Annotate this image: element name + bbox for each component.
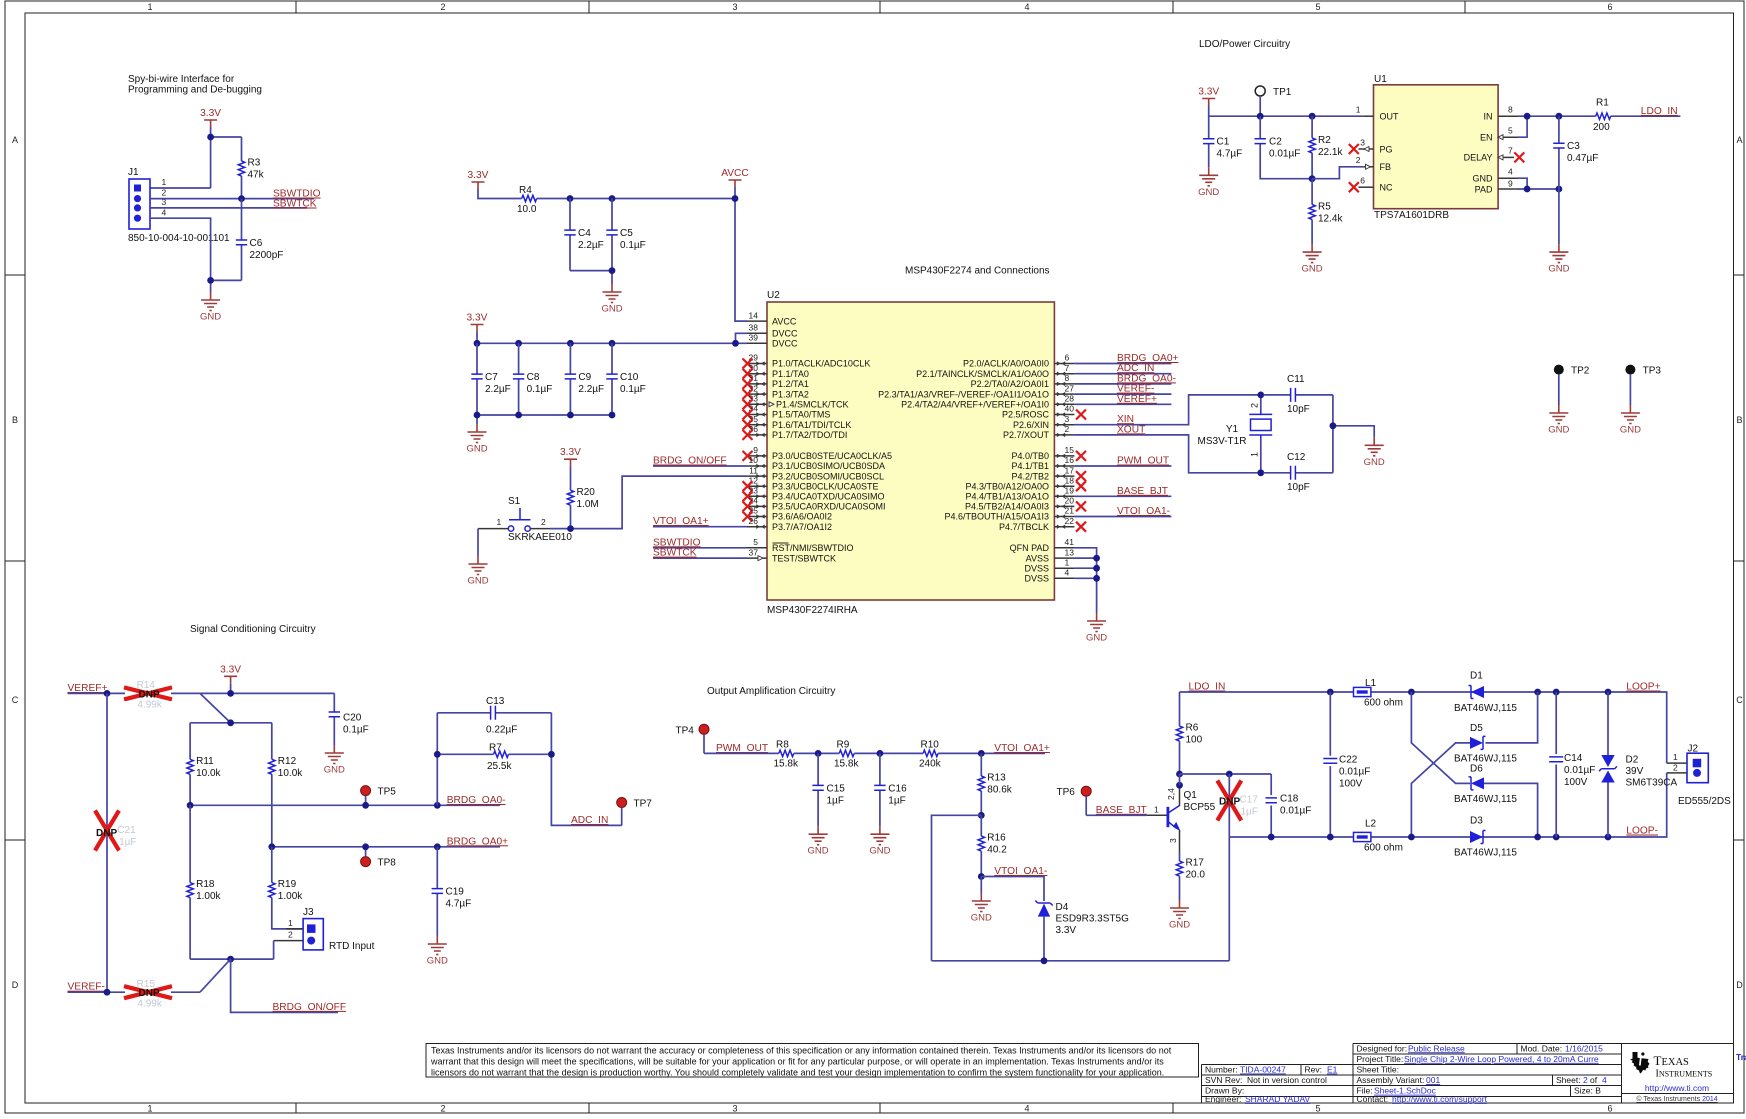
svg-text:P3.6/A6/OA0I2: P3.6/A6/OA0I2 — [772, 512, 832, 522]
svg-text:R16: R16 — [987, 833, 1006, 844]
capacitor C5 — [606, 199, 645, 271]
svg-text:SBWTCK: SBWTCK — [653, 548, 697, 559]
svg-text:4: 4 — [1508, 167, 1513, 177]
U2 pin 3 P2.6/XIN — [1013, 414, 1074, 430]
svg-text:of: of — [1590, 1075, 1598, 1085]
ground (C4/C5) — [601, 284, 622, 315]
test point TP6 — [1057, 786, 1092, 815]
wire net XIN — [1074, 395, 1258, 425]
svg-text:6: 6 — [1607, 2, 1612, 12]
wire net BRDG_OA0- (pin8) — [1074, 383, 1171, 385]
svg-text:27: 27 — [1065, 383, 1075, 393]
junction R13 top — [978, 750, 985, 757]
ground (R5) — [1302, 244, 1323, 275]
svg-text:DELAY: DELAY — [1464, 153, 1493, 163]
svg-text:P4.5/TB2/A14/OA0I3: P4.5/TB2/A14/OA0I3 — [965, 502, 1049, 512]
junction R7 left — [434, 751, 441, 758]
ground (R16) — [971, 893, 992, 924]
U2 pin 27 P2.3/TA1/A3/VREF-/VEREF-/OA1I1/OA1O — [878, 383, 1074, 399]
svg-text:P2.5/ROSC: P2.5/ROSC — [1002, 410, 1050, 420]
power 3.3V (DVCC rail) — [467, 313, 488, 332]
svg-text:1: 1 — [1356, 105, 1361, 115]
svg-text:P3.7/A7/OA1I2: P3.7/A7/OA1I2 — [772, 522, 832, 532]
U2 pin 16 P4.1/TB1 — [1011, 455, 1074, 471]
svg-text:13: 13 — [1065, 547, 1075, 557]
svg-text:P3.5/UCA0RXD/UCA0SOMI: P3.5/UCA0RXD/UCA0SOMI — [772, 502, 886, 512]
svg-text:1: 1 — [162, 177, 167, 187]
capacitor C2 — [1255, 116, 1313, 179]
wire J1 pin4 to GND node — [150, 218, 242, 292]
resistor R18 — [187, 805, 222, 959]
svg-text:Contact:: Contact: — [1357, 1094, 1389, 1104]
svg-text:VEREF+: VEREF+ — [1117, 394, 1157, 405]
wire collector rail to C18 — [1180, 774, 1272, 785]
junction R16 bottom / VTOI_OA1- — [978, 873, 985, 880]
svg-text:IN: IN — [1484, 112, 1493, 122]
test point TP8 — [361, 847, 397, 869]
svg-text:P4.2/TB2: P4.2/TB2 — [1011, 471, 1049, 481]
junction C22 top — [1327, 689, 1334, 696]
svg-text:C10: C10 — [620, 372, 639, 383]
svg-text:L2: L2 — [1365, 819, 1377, 830]
svg-text:10pF: 10pF — [1287, 404, 1310, 415]
svg-text:0.01µF: 0.01µF — [1564, 765, 1595, 776]
wire C11/C12 to GND — [1333, 395, 1374, 473]
wire R9 to R10 — [854, 752, 923, 754]
svg-text:3.3V: 3.3V — [467, 313, 488, 324]
svg-text:PWM_OUT: PWM_OUT — [1117, 456, 1169, 467]
svg-text:R9: R9 — [837, 740, 850, 751]
svg-text:C14: C14 — [1564, 753, 1583, 764]
zone ticks bottom — [296, 1103, 1173, 1113]
junction R2 top node — [1309, 113, 1316, 120]
resistor R9 — [834, 740, 859, 770]
U2 pin 26 P3.7/A7/OA1I2 — [747, 516, 832, 532]
svg-text:1: 1 — [1065, 557, 1070, 567]
U2 pin 12 P3.3/UCB0CLK/UCA0STE — [743, 475, 879, 491]
svg-text:D: D — [1736, 980, 1743, 990]
U2 pin 15 P4.0/TB0 — [1011, 445, 1086, 461]
svg-text:P3.4/UCA0TXD/UCA0SIMO: P3.4/UCA0TXD/UCA0SIMO — [772, 492, 885, 502]
svg-text:21: 21 — [1065, 506, 1075, 516]
svg-text:1: 1 — [1154, 804, 1159, 814]
wire R16 bottom to GND — [980, 877, 982, 894]
junction C3 bottom — [1556, 186, 1563, 193]
svg-text:2: 2 — [440, 1104, 445, 1114]
svg-text:EN: EN — [1480, 133, 1493, 143]
junction C16 top — [877, 750, 884, 757]
svg-text:25.5k: 25.5k — [487, 761, 512, 772]
svg-text:1: 1 — [147, 1104, 152, 1114]
svg-text:LOOP-: LOOP- — [1626, 826, 1658, 837]
svg-text:P2.0/ACLK/A0/OA0I0: P2.0/ACLK/A0/OA0I0 — [963, 359, 1049, 369]
wire 3.3V rail to U1 OUT — [1209, 106, 1364, 117]
svg-text:P4.7/TBCLK: P4.7/TBCLK — [999, 522, 1049, 532]
svg-text:12.4k: 12.4k — [1318, 214, 1343, 225]
capacitor C4 — [564, 199, 603, 271]
svg-text:TP7: TP7 — [634, 799, 653, 810]
svg-text:BRDG_ON/OFF: BRDG_ON/OFF — [653, 456, 727, 467]
svg-text:Designed for:: Designed for: — [1357, 1043, 1408, 1053]
svg-text:LDO_IN: LDO_IN — [1641, 106, 1678, 117]
title block row Drawn By/File/Size — [1205, 1086, 1601, 1096]
svg-text:6: 6 — [1607, 1104, 1612, 1114]
capacitor C6 — [236, 199, 284, 281]
svg-text:SHARAD YADAV: SHARAD YADAV — [1245, 1094, 1311, 1104]
svg-text:P1.2/TA1: P1.2/TA1 — [772, 379, 809, 389]
svg-text:3.3V: 3.3V — [468, 170, 489, 181]
svg-text:15.8k: 15.8k — [834, 759, 859, 770]
svg-text:P2.6/XIN: P2.6/XIN — [1013, 420, 1049, 430]
svg-text:3.3V: 3.3V — [220, 664, 241, 675]
connector J2 ED555/2DS — [1667, 744, 1731, 808]
svg-text:Q1: Q1 — [1184, 790, 1198, 801]
resistor R7 — [437, 742, 551, 772]
svg-text:600 ohm: 600 ohm — [1364, 843, 1403, 854]
svg-text:Spy-bi-wire Interface for: Spy-bi-wire Interface for — [128, 74, 235, 85]
svg-text:4.7µF: 4.7µF — [446, 899, 472, 910]
U2 pin 7 P2.1/TAINCLK/SMCLK/A1/OA0O — [916, 363, 1074, 379]
svg-text:0.1µF: 0.1µF — [620, 240, 646, 251]
resistor R11 — [187, 723, 222, 806]
wire PAD to GND — [1558, 189, 1560, 244]
svg-text:2,4: 2,4 — [1166, 788, 1176, 800]
svg-text:DVCC: DVCC — [772, 339, 798, 349]
U1 pin 9 PAD — [1475, 178, 1518, 194]
junction GND node — [207, 277, 214, 284]
wire J3 pin2 to bottom rail — [273, 941, 275, 960]
zone numbers top — [147, 2, 1612, 12]
resistor R20 — [567, 466, 598, 528]
svg-text:R3: R3 — [248, 158, 261, 169]
capacitor C20 — [329, 693, 369, 745]
zone ticks left — [5, 275, 25, 840]
svg-text:C17: C17 — [1240, 795, 1259, 806]
capacitor C3 — [1553, 116, 1598, 189]
wire crossover diagonals — [1411, 692, 1470, 837]
title block row Engineer/Contact — [1205, 1094, 1488, 1104]
svg-text:J3: J3 — [303, 907, 314, 918]
ground (C15) — [808, 826, 829, 857]
svg-text:ED555/2DS: ED555/2DS — [1678, 796, 1731, 807]
inductor L1 600 ohm — [1354, 678, 1403, 709]
ground (C20) — [324, 745, 345, 776]
svg-text:XOUT: XOUT — [1117, 424, 1145, 435]
title block grid — [1202, 1043, 1734, 1103]
wire S1/R20 to U2 pin11 — [550, 476, 747, 528]
wire net VEREF+ (pin28) — [1074, 403, 1171, 405]
svg-text:PWM_OUT: PWM_OUT — [716, 743, 768, 754]
svg-text:TPS7A1601DRB: TPS7A1601DRB — [1374, 210, 1449, 221]
svg-text:R1: R1 — [1596, 98, 1609, 109]
junction TP8 — [362, 843, 369, 850]
crystal Y1 MS3V-T1R — [1198, 395, 1273, 473]
svg-text:1.00k: 1.00k — [196, 891, 221, 902]
U2 pin 23 P3.4/UCA0TXD/UCA0SIMO — [743, 486, 885, 502]
resistor R14 DNP 4.99k — [124, 680, 172, 711]
title block row Project Title — [1357, 1054, 1599, 1064]
U2 pin 28 P2.4/TA2/A4/VREF+/VEREF+/OA1I0 — [901, 394, 1074, 410]
wire bridge bottom rail — [190, 958, 274, 960]
svg-text:C7: C7 — [485, 372, 498, 383]
svg-text:P2.3/TA1/A3/VREF-/VEREF-/OA1I1: P2.3/TA1/A3/VREF-/VEREF-/OA1I1/OA1O — [878, 389, 1049, 399]
connector J3 RTD Input — [274, 907, 375, 952]
svg-text:C6: C6 — [250, 238, 263, 249]
svg-text:R4: R4 — [519, 185, 532, 196]
wire net BRDG_OA0- — [190, 804, 500, 806]
U2 pin 8 P2.2/TA0/A2/OA0I1 — [971, 373, 1075, 389]
ground (crystal) — [1364, 437, 1385, 468]
svg-text:BAT46WJ,115: BAT46WJ,115 — [1454, 754, 1517, 765]
junction diagonal top — [1408, 689, 1415, 696]
junction D2 top — [1605, 689, 1612, 696]
svg-text:BASE_BJT: BASE_BJT — [1117, 486, 1168, 497]
svg-text:P4.4/TB1/A13/OA1O: P4.4/TB1/A13/OA1O — [965, 492, 1049, 502]
zone ticks right — [1733, 275, 1744, 840]
test point TP1 — [1255, 86, 1292, 116]
wire net VTOI_OA1+ (pin26) — [653, 526, 747, 528]
junction C17 top — [1226, 771, 1233, 778]
svg-text:TP1: TP1 — [1273, 87, 1292, 98]
svg-text:MSP430F2274IRHA: MSP430F2274IRHA — [767, 605, 858, 616]
U2 pin 37 TEST/SBWTCK — [747, 547, 836, 563]
diode D2 SM6T39CA TVS — [1599, 692, 1677, 837]
svg-text:11: 11 — [749, 465, 758, 475]
ground (U2) — [1086, 613, 1107, 644]
svg-text:FB: FB — [1380, 162, 1392, 172]
svg-text:VTOI_OA1+: VTOI_OA1+ — [994, 743, 1050, 754]
svg-text:R2: R2 — [1318, 135, 1331, 146]
svg-text:100: 100 — [1186, 735, 1203, 746]
svg-text:Public Release: Public Release — [1408, 1043, 1465, 1053]
IC U2 MSP430F2274 body — [767, 290, 1054, 616]
U1 pin 7 DELAY — [1464, 146, 1525, 163]
resistor R6 — [1176, 692, 1202, 774]
junction D6 bottom — [1534, 834, 1541, 841]
junction Q1 collector pins — [1176, 782, 1183, 789]
ground (R17) — [1169, 900, 1190, 931]
svg-text:38: 38 — [749, 323, 759, 333]
ground (decoupling rail) — [466, 424, 487, 455]
resistor R13 — [978, 753, 1013, 815]
wire D5 cathode to LDO_IN rail — [1486, 692, 1538, 743]
junction S1/R20 node — [567, 525, 574, 532]
svg-text:5: 5 — [1315, 2, 1320, 12]
svg-text:1: 1 — [288, 918, 293, 928]
svg-text:BASE_BJT: BASE_BJT — [1096, 805, 1147, 816]
wire net PWM_OUT (pin16) — [1074, 465, 1171, 467]
svg-text:8: 8 — [1508, 105, 1513, 115]
svg-text:18: 18 — [1065, 475, 1075, 485]
svg-text:Y1: Y1 — [1226, 424, 1239, 435]
U2 pin 13 AVSS — [1026, 547, 1075, 563]
svg-text:C: C — [12, 695, 19, 705]
svg-text:2: 2 — [1065, 424, 1070, 434]
power 3.3V (R20 pullup) — [560, 447, 581, 466]
svg-text:RTD Input: RTD Input — [329, 941, 375, 952]
svg-text:5: 5 — [1315, 1104, 1320, 1114]
capacitor C1 — [1203, 116, 1242, 167]
svg-text:SKRKAEE010: SKRKAEE010 — [508, 532, 572, 543]
svg-text:4: 4 — [1065, 568, 1070, 578]
U2 pin 10 P3.1/UCB0SIMO/UCB0SDA — [747, 455, 885, 471]
wire net LOOP- rail — [1229, 773, 1666, 837]
svg-text:P1.7/TA2/TDO/TDI: P1.7/TA2/TDO/TDI — [772, 430, 847, 440]
svg-text:40.2: 40.2 — [987, 845, 1007, 856]
svg-text:3.3V: 3.3V — [560, 447, 581, 458]
svg-text:D6: D6 — [1470, 764, 1483, 775]
svg-text:2: 2 — [1673, 762, 1678, 772]
svg-text:C: C — [1736, 695, 1743, 705]
U1 pin 2 FB — [1356, 155, 1391, 172]
U2 pin 35 P1.6/TA1/TDI/TCLK — [743, 414, 852, 430]
wire D6 anode to LOOP- rail — [1484, 783, 1538, 837]
svg-text:R18: R18 — [196, 879, 215, 890]
svg-text:2: 2 — [541, 517, 546, 527]
wire net ADC_IN (pin7) — [1074, 373, 1171, 375]
svg-text:DVSS: DVSS — [1024, 574, 1049, 584]
svg-text:17: 17 — [1065, 465, 1075, 475]
svg-text:3: 3 — [1360, 137, 1365, 147]
svg-text:PG: PG — [1380, 144, 1393, 154]
svg-text:0.01µF: 0.01µF — [1280, 805, 1311, 816]
svg-text:U1: U1 — [1374, 74, 1387, 85]
svg-text:1µF: 1µF — [1241, 807, 1258, 818]
svg-text:Number:: Number: — [1205, 1065, 1238, 1075]
svg-text:10.0k: 10.0k — [196, 768, 221, 779]
U2 pin 1 DVSS — [1024, 557, 1074, 573]
svg-text:2.2µF: 2.2µF — [485, 384, 511, 395]
wire net BRDG_OA0+ — [272, 846, 500, 848]
svg-text:3: 3 — [732, 1104, 737, 1114]
test point TP7 — [617, 798, 653, 826]
svg-text:Assembly Variant:: Assembly Variant: — [1357, 1075, 1425, 1085]
svg-text:VEREF+: VEREF+ — [68, 683, 108, 694]
svg-text:4: 4 — [1602, 1075, 1607, 1085]
svg-text:B: B — [12, 415, 18, 425]
junction R2/R5/C2/FB node — [1309, 175, 1316, 182]
svg-text:D: D — [12, 980, 19, 990]
svg-text:INSTRUMENTS: INSTRUMENTS — [1656, 1069, 1713, 1080]
svg-text:P3.0/UCB0STE/UCA0CLK/A5: P3.0/UCB0STE/UCA0CLK/A5 — [772, 451, 892, 461]
svg-text:warrant that this design will: warrant that this design will meet the s… — [430, 1056, 1164, 1066]
svg-text:D1: D1 — [1470, 671, 1483, 682]
svg-text:R8: R8 — [776, 740, 789, 751]
wire net SBWTDIO — [150, 198, 314, 200]
svg-text:2: 2 — [440, 2, 445, 12]
wire net PWM_OUT — [704, 752, 779, 754]
zone letters right — [1736, 135, 1743, 990]
wire C17 bottom to feedback rail — [1228, 837, 1230, 961]
capacitor C19 — [432, 847, 472, 936]
resistor R12 — [269, 723, 304, 847]
svg-text:14: 14 — [749, 310, 759, 320]
svg-text:5: 5 — [1508, 126, 1513, 136]
junction AVCC node — [732, 195, 739, 202]
resistor R3 — [238, 137, 264, 199]
svg-text:C11: C11 — [1287, 374, 1305, 385]
svg-text:0.01µF: 0.01µF — [1339, 766, 1370, 777]
svg-text:1µF: 1µF — [827, 795, 844, 806]
junction D4 anode — [1041, 957, 1048, 964]
capacitor C12 — [1263, 452, 1333, 493]
title block row Number/Rev/Sheet Title — [1205, 1065, 1399, 1075]
wire DVCC rail — [477, 332, 747, 344]
svg-text:U2: U2 — [767, 290, 780, 301]
U2 pin 39 DVCC — [747, 333, 798, 349]
svg-text:SVN Rev:: SVN Rev: — [1205, 1075, 1242, 1085]
capacitor C7 — [471, 343, 510, 415]
svg-text:Single Chip 2-Wire Loop Powere: Single Chip 2-Wire Loop Powered, 4 to 20… — [1404, 1054, 1599, 1064]
svg-text:BCP55: BCP55 — [1184, 802, 1216, 813]
svg-text:200: 200 — [1593, 122, 1610, 133]
wire net VEREF- — [68, 959, 231, 992]
svg-text:ADC_IN: ADC_IN — [571, 815, 608, 826]
svg-text:C19: C19 — [446, 887, 465, 898]
junction C14 top — [1553, 689, 1560, 696]
svg-text:P1.3/TA2: P1.3/TA2 — [772, 389, 809, 399]
svg-text:1: 1 — [497, 517, 502, 527]
svg-text:100V: 100V — [1564, 777, 1588, 788]
svg-text:3.3V: 3.3V — [1056, 925, 1077, 936]
svg-text:C18: C18 — [1280, 793, 1299, 804]
svg-text:15: 15 — [1065, 445, 1075, 455]
wire 3.3V to VEREF+ wire — [230, 683, 232, 693]
svg-text:A: A — [12, 135, 18, 145]
svg-text:R12: R12 — [278, 756, 297, 767]
wire U1 IN / EN — [1518, 116, 1590, 137]
svg-text:OUT: OUT — [1380, 112, 1400, 122]
U2 pin 14 AVCC — [747, 310, 797, 326]
svg-text:37: 37 — [749, 547, 759, 557]
svg-text:4: 4 — [1024, 2, 1029, 12]
svg-text:240k: 240k — [919, 759, 942, 770]
U2 pin 29 P1.0/TACLK/ADC10CLK — [743, 353, 871, 369]
svg-text:C16: C16 — [888, 783, 907, 794]
svg-text:0.1µF: 0.1µF — [527, 384, 553, 395]
junction VEREF+/C21 — [104, 690, 111, 697]
svg-text:Project Title:: Project Title: — [1357, 1054, 1404, 1064]
svg-text:LOOP+: LOOP+ — [1626, 682, 1660, 693]
junction D2 bottom — [1605, 834, 1612, 841]
svg-text:P4.6/TBOUTH/A15/OA1I3: P4.6/TBOUTH/A15/OA1I3 — [944, 512, 1049, 522]
svg-text:TEST/SBWTCK: TEST/SBWTCK — [772, 553, 836, 563]
svg-text:C20: C20 — [343, 713, 362, 724]
svg-text:C9: C9 — [578, 372, 591, 383]
svg-text:C2: C2 — [1269, 137, 1282, 148]
svg-text:TP3: TP3 — [1643, 366, 1662, 377]
wire net VEREF+ — [68, 693, 335, 722]
svg-text:0.22µF: 0.22µF — [486, 725, 517, 736]
junction 3.3V node — [207, 134, 214, 141]
svg-text:Engineer:: Engineer: — [1205, 1094, 1241, 1104]
svg-text:1: 1 — [1250, 452, 1260, 457]
svg-text:1: 1 — [1673, 752, 1678, 762]
wire AVCC to U2 pin14 — [735, 187, 747, 321]
svg-text:P1.5/TA0/TMS: P1.5/TA0/TMS — [772, 410, 830, 420]
disclaimer box — [426, 1044, 1198, 1078]
svg-text:P1.4/SMCLK/TCK: P1.4/SMCLK/TCK — [776, 400, 849, 410]
svg-text:VTOI_OA1-: VTOI_OA1- — [994, 866, 1047, 877]
ground (TP2) — [1548, 405, 1569, 436]
test point TP2 — [1554, 365, 1590, 405]
U2 pin 41 QFN PAD — [1010, 537, 1075, 553]
svg-text:R5: R5 — [1318, 202, 1331, 213]
svg-text:100V: 100V — [1339, 778, 1363, 789]
svg-text:AVCC: AVCC — [772, 316, 797, 326]
svg-text:P3.1/UCB0SIMO/UCB0SDA: P3.1/UCB0SIMO/UCB0SDA — [772, 461, 885, 471]
svg-text:3: 3 — [732, 2, 737, 12]
